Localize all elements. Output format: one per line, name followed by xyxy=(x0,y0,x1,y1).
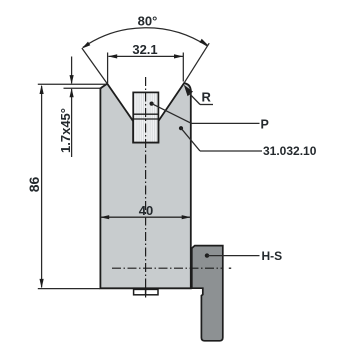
radius R leader arrowhead xyxy=(184,85,193,96)
dimension 86 line xyxy=(41,86,43,287)
vertical centerline xyxy=(145,77,147,298)
svg-text:40: 40 xyxy=(139,203,153,218)
dimension 40 line xyxy=(101,216,191,218)
die body V-block xyxy=(100,83,190,288)
svg-text:P: P xyxy=(261,117,269,131)
pin insert P xyxy=(133,92,158,142)
angle 80 degree legs xyxy=(82,48,107,84)
horizontal centerline xyxy=(112,267,224,269)
svg-text:32.1: 32.1 xyxy=(132,42,157,57)
leader part number xyxy=(179,126,183,130)
svg-text:31.032.10: 31.032.10 xyxy=(263,144,317,158)
angle 80 degree arc xyxy=(83,28,208,48)
dimension 86 extension lines xyxy=(38,83,107,85)
dimension 32.1 line xyxy=(108,55,183,57)
chamfer dim 1.7x45 lines and arrows xyxy=(71,57,73,84)
svg-text:80°: 80° xyxy=(138,14,158,29)
bottom tang xyxy=(134,289,158,294)
chamfer dim 1.7x45 extension line xyxy=(64,87,102,89)
svg-text:R: R xyxy=(202,90,212,105)
svg-text:1.7x45°: 1.7x45° xyxy=(58,108,73,153)
svg-text:H-S: H-S xyxy=(262,249,283,263)
dimension 32.1 extension lines xyxy=(107,53,109,84)
clamp holder H-S piece xyxy=(192,246,223,341)
insert divider band xyxy=(133,113,158,115)
leader P xyxy=(150,102,154,106)
svg-text:86: 86 xyxy=(26,177,42,193)
leader H-S xyxy=(205,253,209,257)
